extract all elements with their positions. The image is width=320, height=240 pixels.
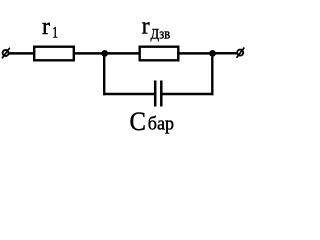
wire node A to R2 <box>105 52 140 55</box>
wire node B to right terminal <box>213 52 238 55</box>
svg-text:r: r <box>42 14 50 40</box>
right terminal <box>237 48 245 58</box>
svg-text:бар: бар <box>148 113 174 135</box>
label r1 <box>42 14 58 42</box>
label Cбар <box>130 106 175 136</box>
label rДзв <box>142 13 171 41</box>
svg-text:Дзв: Дзв <box>151 26 171 42</box>
wire bottom left to capacitor <box>103 93 155 95</box>
svg-text:1: 1 <box>52 25 58 42</box>
resistor r1 <box>34 47 74 61</box>
wire up to node B (right leg of capacitor branch) <box>211 53 213 95</box>
wire node A down (left leg of capacitor branch) <box>103 53 105 95</box>
node A (left junction) <box>101 50 108 57</box>
capacitor Cбар <box>155 81 161 107</box>
wire capacitor to bottom right <box>161 93 213 95</box>
resistor rДзв <box>140 47 179 61</box>
wire left terminal to R1 <box>9 52 35 55</box>
wire R2 to node B <box>177 52 213 55</box>
left terminal <box>2 48 10 59</box>
node B (right junction) <box>209 50 216 57</box>
wire R1 to node A <box>73 52 105 55</box>
svg-text:r: r <box>142 13 150 39</box>
svg-text:С: С <box>130 106 146 136</box>
